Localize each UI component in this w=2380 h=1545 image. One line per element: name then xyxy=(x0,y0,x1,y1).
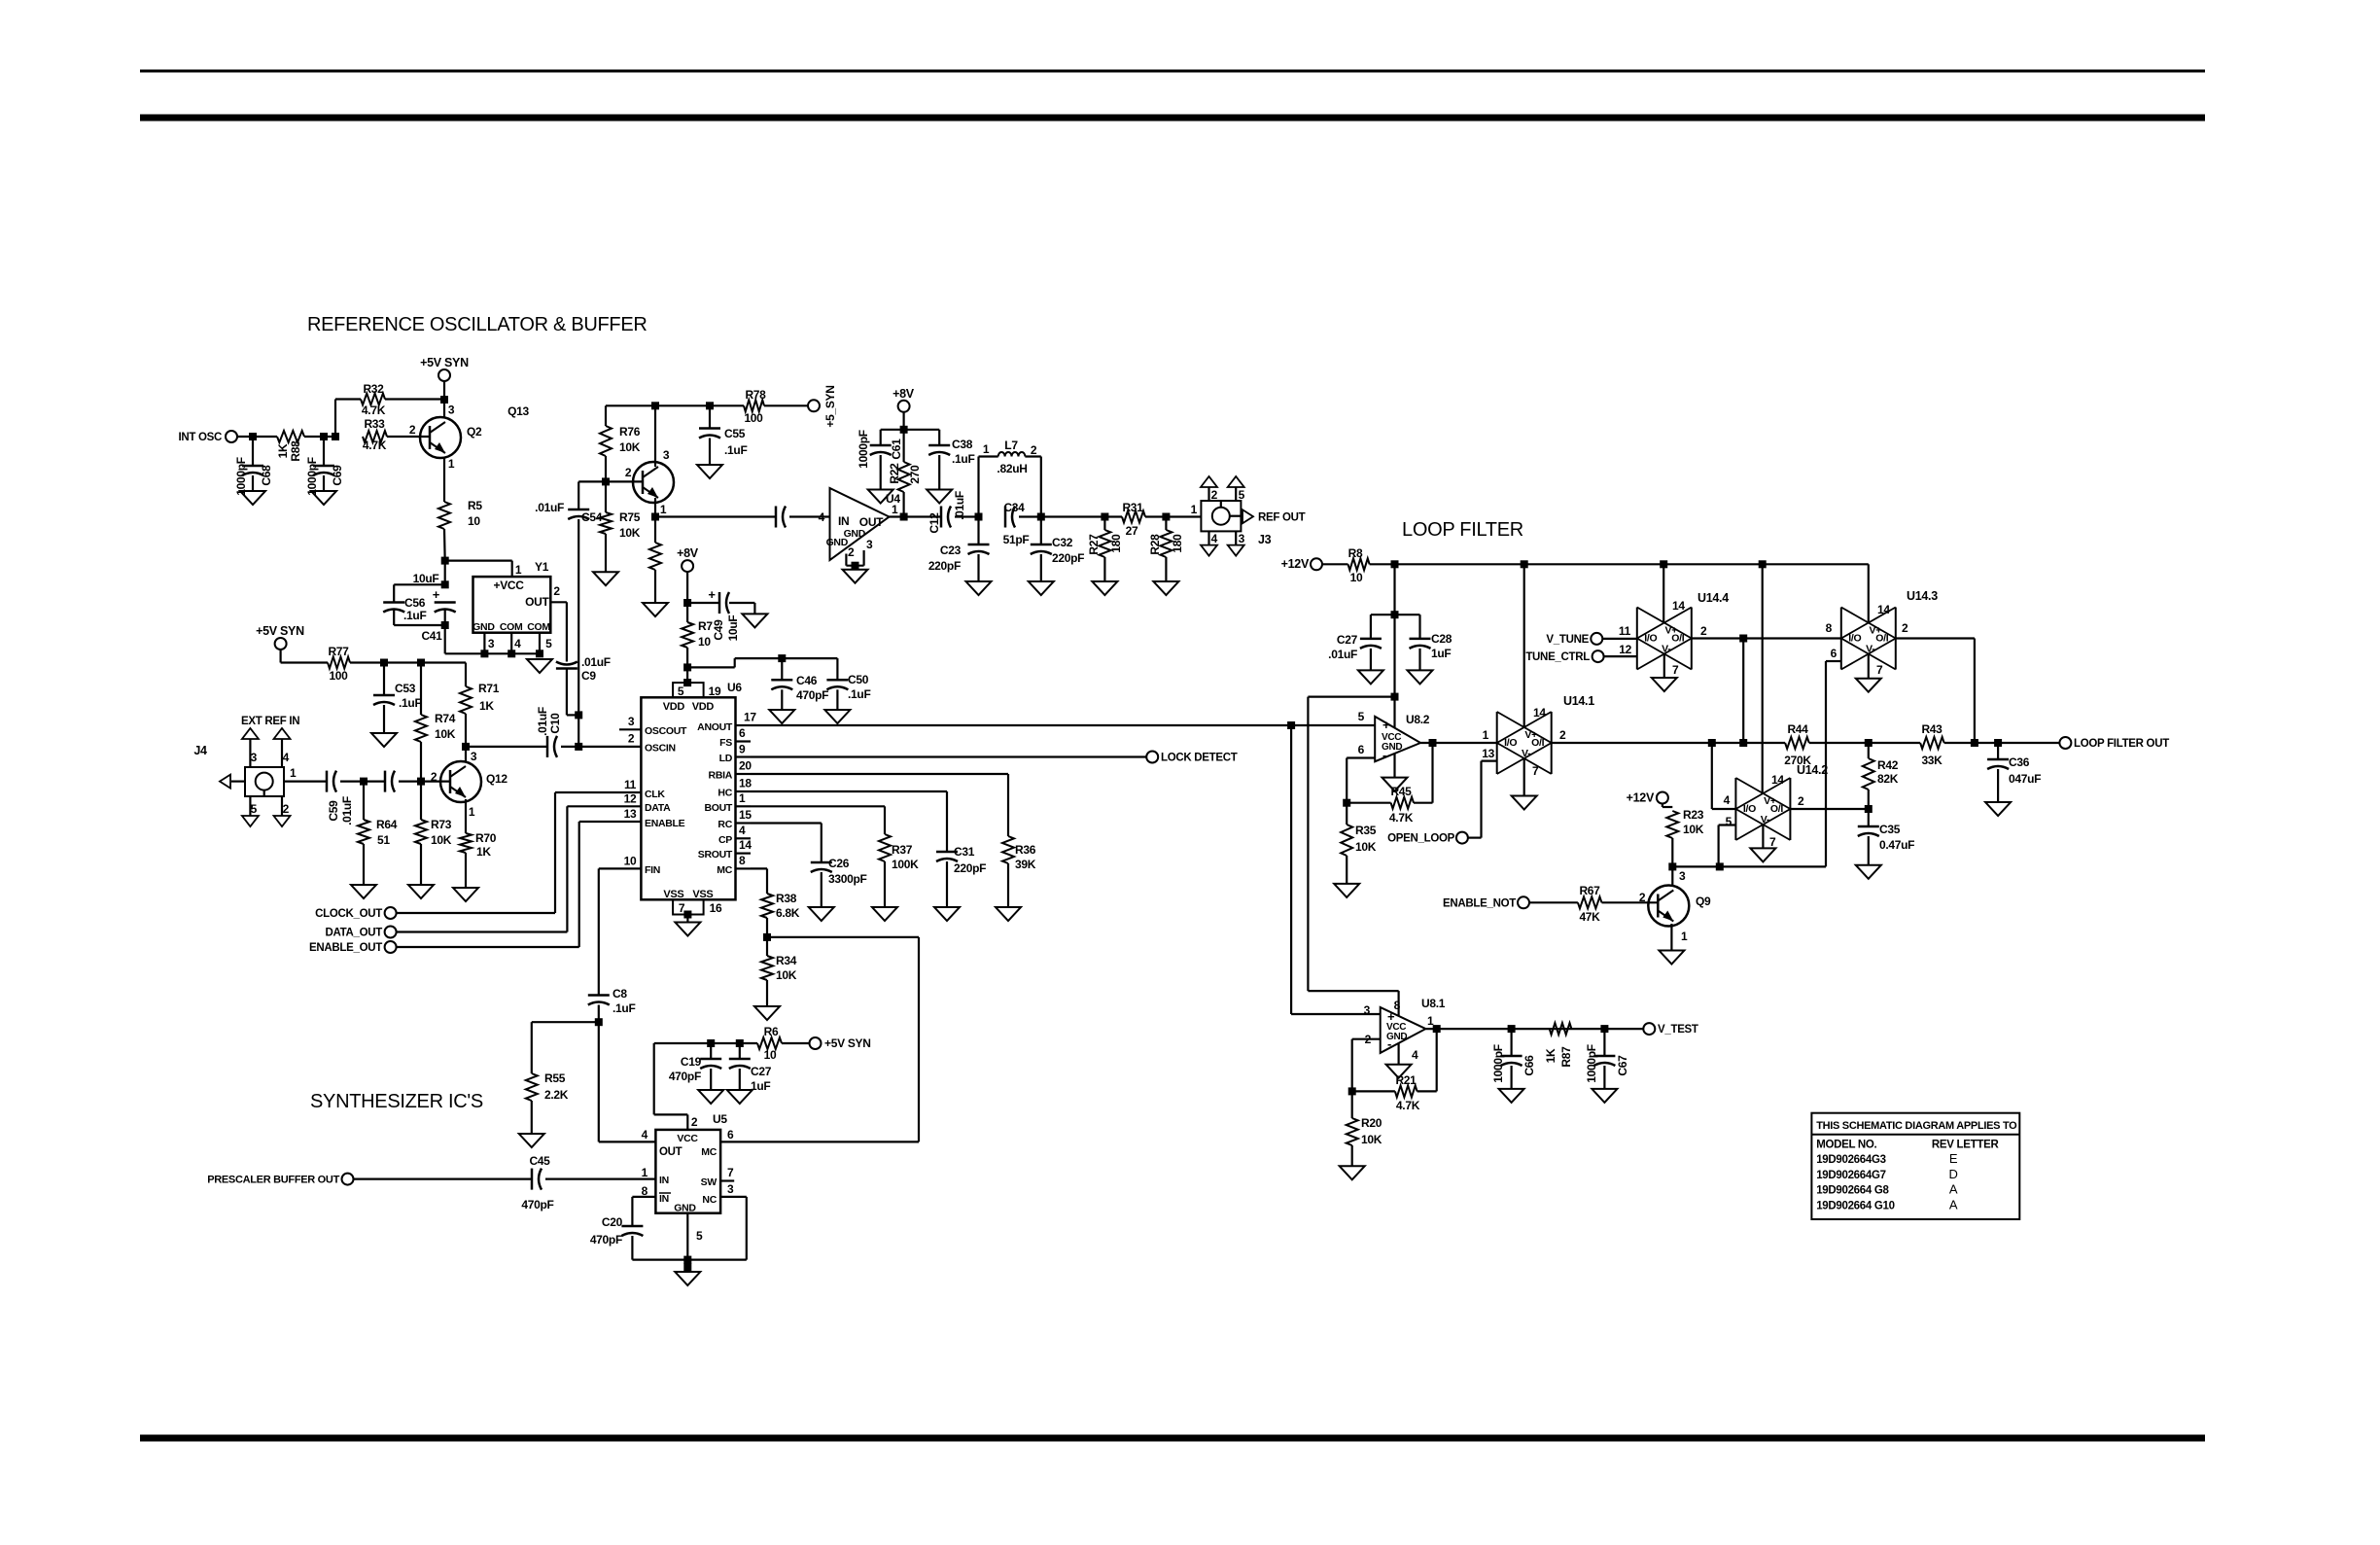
U6 bottom VSS notch with pins 7 and 16 xyxy=(673,899,722,922)
wire U6 FIN to C8 and U5 OUT xyxy=(599,868,656,1141)
svg-text:R33: R33 xyxy=(364,417,385,431)
svg-text:C55: C55 xyxy=(724,427,746,440)
svg-text:180: 180 xyxy=(1109,534,1123,553)
svg-text:+12V: +12V xyxy=(1281,557,1310,571)
svg-text:3: 3 xyxy=(1679,869,1686,883)
junction R7 bottom / VDD node xyxy=(683,663,691,686)
wire Q9 emitter to ground xyxy=(1670,924,1672,951)
ground below C38 xyxy=(927,490,952,504)
svg-text:R6: R6 xyxy=(764,1025,779,1038)
svg-text:VDD: VDD xyxy=(663,701,685,713)
analog switch U14.3 xyxy=(1831,589,1939,670)
svg-text:-: - xyxy=(1382,748,1386,762)
svg-text:R34: R34 xyxy=(776,954,797,967)
capacitor C9 .01uF xyxy=(556,655,611,715)
svg-text:R31: R31 xyxy=(1122,501,1143,514)
capacitor C28 1uF xyxy=(1410,614,1452,670)
wire U14.2 pin 2 out to R42 node xyxy=(1790,808,1868,810)
U14.3 pin 7 ground wire xyxy=(1869,654,1883,679)
svg-text:O/I: O/I xyxy=(1671,633,1684,645)
svg-text:C34: C34 xyxy=(1003,501,1025,514)
svg-text:3: 3 xyxy=(448,404,455,417)
ground below R55 xyxy=(519,1134,544,1147)
svg-text:5: 5 xyxy=(1239,488,1245,502)
wire U5 pin 5 GND node xyxy=(683,1213,691,1272)
wire U4 OUT to C12 xyxy=(890,513,942,521)
svg-text:C31: C31 xyxy=(954,845,975,859)
capacitor C69 1000pF xyxy=(305,437,344,496)
svg-text:1000pF: 1000pF xyxy=(1491,1044,1505,1083)
svg-text:.82uH: .82uH xyxy=(997,462,1027,475)
analog switch U14.4 xyxy=(1619,591,1729,670)
svg-text:VSS: VSS xyxy=(692,889,713,900)
svg-text:5: 5 xyxy=(251,802,258,816)
ground below C53 xyxy=(371,733,397,747)
capacitor C41 10uF polarized xyxy=(413,572,456,653)
svg-text:VCC: VCC xyxy=(677,1133,698,1144)
svg-text:+: + xyxy=(433,587,440,602)
svg-text:.01uF: .01uF xyxy=(535,501,564,514)
svg-text:R74: R74 xyxy=(435,712,456,725)
op-amp U8.1 xyxy=(1364,997,1446,1062)
svg-text:20: 20 xyxy=(739,759,752,773)
capacitor C45 470pF xyxy=(521,1154,553,1211)
svg-text:GND: GND xyxy=(472,621,495,633)
svg-text:13: 13 xyxy=(1482,747,1494,760)
U6 pin 20 RBIA stub xyxy=(736,759,752,775)
svg-text:+VCC: +VCC xyxy=(494,579,525,592)
svg-text:MODEL NO.: MODEL NO. xyxy=(1816,1139,1876,1150)
svg-text:19: 19 xyxy=(709,685,721,698)
svg-text:3: 3 xyxy=(628,715,635,728)
resistor R38 6.8K xyxy=(761,892,800,937)
label REF OUT xyxy=(1258,512,1306,524)
ground below C27 (U5) xyxy=(727,1090,752,1104)
ground below U14.1 xyxy=(1512,796,1537,810)
svg-text:.1uF: .1uF xyxy=(612,1001,635,1015)
resistor R64 51 xyxy=(358,782,398,885)
terminal LOCK DETECT xyxy=(1146,752,1238,764)
junction C32 node xyxy=(1019,513,1104,521)
terminal +5_SYN xyxy=(808,385,837,427)
wire BOUT to R37 xyxy=(751,806,885,834)
svg-text:19D902664G7: 19D902664G7 xyxy=(1816,1170,1886,1181)
svg-text:Q9: Q9 xyxy=(1696,895,1711,908)
capacitor C27 1uF (U5 supply) xyxy=(729,1043,772,1093)
svg-text:5: 5 xyxy=(1358,710,1365,723)
svg-text:5: 5 xyxy=(678,685,684,698)
svg-text:.01uF: .01uF xyxy=(581,655,611,669)
wire U14.3 out down to main line xyxy=(1896,639,1975,744)
ground below R73 xyxy=(408,885,434,898)
svg-text:C59: C59 xyxy=(327,800,340,822)
svg-text:+8V: +8V xyxy=(892,387,915,401)
wire PRESCALER BUFFER OUT to U5 IN via C45 xyxy=(354,1177,656,1179)
ground below C68 xyxy=(240,491,265,505)
junction Q9 collector node xyxy=(1668,862,1724,886)
svg-text:GND: GND xyxy=(826,537,849,548)
svg-text:C27: C27 xyxy=(1337,633,1358,647)
svg-text:V_TUNE: V_TUNE xyxy=(1546,634,1589,646)
svg-text:R73: R73 xyxy=(431,818,452,831)
resistor Q13 emitter (unlabeled) xyxy=(649,543,661,603)
terminal PRESCALER BUFFER OUT xyxy=(207,1174,353,1186)
svg-text:7: 7 xyxy=(1769,835,1776,849)
ground below C55 xyxy=(697,465,722,478)
svg-text:4: 4 xyxy=(1412,1048,1418,1062)
capacitor C12 .01uF xyxy=(927,491,979,533)
ground below R37 xyxy=(872,907,897,921)
svg-text:7: 7 xyxy=(727,1166,734,1179)
svg-text:R76: R76 xyxy=(619,425,641,439)
wire Q2 emitter to R5 xyxy=(443,457,445,502)
svg-text:6.8K: 6.8K xyxy=(776,906,800,920)
svg-text:OSCIN: OSCIN xyxy=(645,743,676,755)
capacitor C54 .01uF xyxy=(535,501,603,524)
junction R45 R35 node xyxy=(1343,799,1350,807)
wire main loop line U14.1 out to R44 xyxy=(1552,739,1785,747)
svg-text:R8: R8 xyxy=(1348,546,1363,560)
svg-text:R78: R78 xyxy=(745,388,766,402)
svg-text:C38: C38 xyxy=(952,438,973,451)
svg-text:16: 16 xyxy=(710,901,722,915)
svg-text:5: 5 xyxy=(696,1229,703,1243)
resistor R71 1K xyxy=(460,663,500,747)
svg-text:100: 100 xyxy=(329,669,348,683)
resistor R23 10K xyxy=(1666,808,1703,866)
IC U5 body xyxy=(642,1112,734,1243)
svg-text:0.47uF: 0.47uF xyxy=(1879,838,1914,852)
svg-text:470pF: 470pF xyxy=(521,1198,553,1211)
svg-text:1K: 1K xyxy=(476,845,491,859)
resistor R36 39K xyxy=(1002,836,1036,907)
ground below C67 xyxy=(1592,1089,1617,1103)
transistor Q9 xyxy=(1639,869,1711,943)
svg-text:2: 2 xyxy=(628,732,635,746)
svg-text:EXT REF IN: EXT REF IN xyxy=(241,716,299,727)
svg-text:Y1: Y1 xyxy=(535,560,549,574)
svg-text:IN: IN xyxy=(659,1193,669,1205)
svg-text:2: 2 xyxy=(1700,624,1707,638)
svg-text:1: 1 xyxy=(1483,728,1489,742)
ground below U14.2 xyxy=(1750,848,1775,861)
junction C36 node xyxy=(1994,739,2002,747)
capacitor C10 .01uF xyxy=(536,707,562,757)
crystal oscillator Y1 xyxy=(472,560,560,633)
wire OPEN_LOOP to U14.1 pin 13 xyxy=(1468,761,1497,838)
svg-text:6: 6 xyxy=(1358,743,1365,756)
svg-text:R70: R70 xyxy=(475,831,497,845)
svg-text:4.7K: 4.7K xyxy=(1396,1099,1420,1112)
svg-text:14: 14 xyxy=(739,838,752,852)
svg-text:1: 1 xyxy=(290,766,297,780)
svg-text:82K: 82K xyxy=(1877,772,1899,786)
ground below C36 xyxy=(1985,802,2011,816)
svg-text:14: 14 xyxy=(1771,773,1784,787)
IC U6 top VDD notch with pins 5 and 19 xyxy=(673,681,742,698)
wire +5 rail (R76 top to R78) xyxy=(606,402,714,409)
capacitor C68 1000pF xyxy=(234,437,273,496)
svg-text:4.7K: 4.7K xyxy=(363,439,387,452)
U6 pin 14 SROUT stub xyxy=(736,838,752,854)
svg-text:1000pF: 1000pF xyxy=(305,457,319,496)
wire U5 pin 8 INbar to C20 xyxy=(632,1197,655,1226)
ground below Q9 xyxy=(1659,951,1684,965)
ground below C23 xyxy=(966,581,992,595)
svg-text:470pF: 470pF xyxy=(796,688,828,702)
resistor R75 10K xyxy=(600,481,641,572)
capacitor C61 1000pF xyxy=(857,430,903,490)
wire U8.1 pin 2 to R21/R20 node xyxy=(1352,1039,1381,1092)
svg-text:R43: R43 xyxy=(1921,722,1942,736)
svg-text:A: A xyxy=(1949,1197,1958,1211)
svg-text:1K: 1K xyxy=(276,443,290,458)
svg-text:VDD: VDD xyxy=(692,701,715,713)
wire LD to LOCK DETECT xyxy=(751,755,1146,757)
junction +8V node xyxy=(683,599,691,607)
svg-text:LOOP FILTER OUT: LOOP FILTER OUT xyxy=(2074,738,2169,750)
junction C53 tap xyxy=(380,659,388,667)
U6 pin 10 FIN stub xyxy=(619,855,641,869)
svg-text:+: + xyxy=(1382,718,1390,732)
svg-text:2: 2 xyxy=(409,423,416,437)
svg-text:4: 4 xyxy=(642,1128,648,1141)
wire Y1 OUT through C9 xyxy=(550,602,567,661)
svg-text:51pF: 51pF xyxy=(1003,533,1030,546)
svg-text:C49: C49 xyxy=(712,619,725,641)
svg-text:R71: R71 xyxy=(478,682,500,695)
svg-text:FS: FS xyxy=(719,737,732,749)
ground below C69 xyxy=(311,491,336,505)
svg-text:1uF: 1uF xyxy=(751,1079,770,1093)
svg-text:2: 2 xyxy=(1902,621,1908,635)
capacitor C34 51pF xyxy=(1003,501,1030,546)
svg-text:C26: C26 xyxy=(828,857,850,870)
wire RBIA to R36 xyxy=(751,774,1008,836)
resistor R5 10 xyxy=(438,499,482,561)
svg-text:.01uF: .01uF xyxy=(536,707,549,736)
coupling capacitor (unlabeled) at U4 input xyxy=(776,507,786,528)
capacitor C38 .1uF xyxy=(928,430,974,490)
top thin rule xyxy=(140,70,2205,73)
U6 pin 13 ENABLE stub xyxy=(619,807,641,822)
svg-text:10K: 10K xyxy=(619,526,641,540)
svg-text:R7: R7 xyxy=(698,619,713,633)
svg-text:.1uF: .1uF xyxy=(403,609,426,622)
junction R64 tap xyxy=(360,778,367,786)
junction U14.3 output node xyxy=(1971,739,1978,747)
svg-text:C45: C45 xyxy=(529,1154,550,1168)
svg-text:R75: R75 xyxy=(619,510,641,524)
svg-text:100K: 100K xyxy=(892,858,919,871)
wire MC node to U5 pin 6 xyxy=(720,937,919,1142)
wire RC to C26 xyxy=(751,824,822,863)
resistor R74 10K xyxy=(415,663,456,782)
svg-text:OPEN_LOOP: OPEN_LOOP xyxy=(1387,833,1455,845)
svg-text:1: 1 xyxy=(642,1166,648,1179)
svg-text:C61: C61 xyxy=(890,439,903,460)
svg-text:+8V: +8V xyxy=(677,546,699,560)
terminal +12V (R23 branch) xyxy=(1627,791,1673,808)
svg-text:I/O: I/O xyxy=(1644,633,1657,645)
svg-text:.1uF: .1uF xyxy=(848,687,870,701)
svg-text:Q13: Q13 xyxy=(507,404,529,418)
junction Q12 collector node xyxy=(462,743,470,762)
ground below C26 xyxy=(809,907,834,921)
svg-text:I/O: I/O xyxy=(1743,803,1756,815)
svg-text:.01uF: .01uF xyxy=(340,796,354,825)
capacitor C32 220pF xyxy=(1031,517,1084,582)
svg-text:C53: C53 xyxy=(395,682,416,695)
svg-text:COM: COM xyxy=(500,621,523,633)
U8.2 GND pin to ground xyxy=(1393,754,1395,778)
svg-text:470pF: 470pF xyxy=(669,1070,701,1083)
U14.2 pin 14 supply wire xyxy=(1762,564,1764,793)
resistor R31 27 xyxy=(1104,501,1201,538)
wire U5 pin 2 VCC to R6 rail xyxy=(654,1039,757,1130)
svg-text:U14.4: U14.4 xyxy=(1697,591,1729,605)
svg-text:PRESCALER BUFFER OUT: PRESCALER BUFFER OUT xyxy=(207,1175,339,1186)
U14.4 pin 7 ground wire xyxy=(1664,654,1679,679)
bottom thick rule xyxy=(140,1435,2205,1442)
svg-text:U8.2: U8.2 xyxy=(1406,713,1430,726)
connector J3 REF OUT xyxy=(1191,476,1272,556)
svg-text:1uF: 1uF xyxy=(1431,647,1451,660)
wire ANOUT to U8.2 pin 5 xyxy=(751,721,1375,729)
ground below R28 xyxy=(1153,581,1178,595)
svg-text:8: 8 xyxy=(739,854,746,867)
svg-text:U14.3: U14.3 xyxy=(1907,589,1938,603)
capacitor C55 .1uF xyxy=(699,405,747,465)
junction R42 C35 node xyxy=(1865,805,1872,826)
svg-text:6: 6 xyxy=(1831,647,1837,660)
junction Q13 base xyxy=(602,477,643,485)
U14.2 pin 7 ground wire xyxy=(1763,825,1776,849)
svg-text:R27: R27 xyxy=(1087,534,1101,555)
svg-text:3: 3 xyxy=(1239,532,1245,545)
terminal V_TUNE xyxy=(1546,633,1602,646)
junction R55 tap xyxy=(595,1018,603,1026)
svg-text:10: 10 xyxy=(764,1048,777,1062)
svg-text:.1uF: .1uF xyxy=(724,443,747,457)
ground below R36 xyxy=(996,907,1021,921)
resistor R28 180 xyxy=(1148,517,1184,582)
terminal TUNE_CTRL xyxy=(1525,650,1603,663)
svg-text:3: 3 xyxy=(488,637,495,650)
ground below R75 xyxy=(593,572,618,585)
svg-text:4: 4 xyxy=(1724,793,1731,807)
svg-text:+5V SYN: +5V SYN xyxy=(420,356,469,369)
capacitor C66 1000pF xyxy=(1491,1029,1536,1089)
U6 pin 15 RC stub xyxy=(736,808,752,824)
wire U14.3 pin 6 control to Q9 collector node xyxy=(1672,661,1841,866)
ground below R34 xyxy=(754,1006,780,1020)
svg-text:C8: C8 xyxy=(612,987,627,1001)
svg-text:47K: 47K xyxy=(1579,910,1600,924)
capacitor C46 470pF xyxy=(771,658,828,710)
svg-text:17: 17 xyxy=(744,711,756,724)
terminal +8V (R7 branch) xyxy=(677,546,699,603)
top thick rule xyxy=(140,115,2205,122)
svg-text:2: 2 xyxy=(1211,488,1218,502)
svg-text:DATA_OUT: DATA_OUT xyxy=(325,928,382,939)
svg-text:7: 7 xyxy=(1672,663,1679,677)
svg-text:J3: J3 xyxy=(1258,533,1272,546)
svg-text:1000pF: 1000pF xyxy=(1585,1044,1598,1083)
svg-text:Q2: Q2 xyxy=(467,425,482,439)
ground below C35 xyxy=(1856,865,1881,879)
ground below C32 xyxy=(1029,581,1054,595)
ground below R27 xyxy=(1092,581,1117,595)
svg-text:R22: R22 xyxy=(888,463,901,484)
junction R42 top node xyxy=(1865,739,1872,747)
U8.1 GND pin 4 to ground xyxy=(1397,1043,1399,1065)
svg-text:R55: R55 xyxy=(544,1071,566,1085)
svg-text:DATA: DATA xyxy=(645,802,671,814)
svg-text:10K: 10K xyxy=(435,727,456,741)
svg-text:OSCOUT: OSCOUT xyxy=(645,725,687,737)
resistor R7 10 xyxy=(682,603,713,667)
svg-text:047uF: 047uF xyxy=(2009,772,2041,786)
terminal +5V SYN (Q2 collector) xyxy=(420,356,469,400)
svg-text:-: - xyxy=(1387,1036,1391,1051)
label Q13 (floating designator) xyxy=(507,404,529,418)
ground below U8.2 xyxy=(1382,778,1408,791)
svg-text:3: 3 xyxy=(471,750,477,763)
transistor Q12 xyxy=(431,750,508,819)
svg-text:C41: C41 xyxy=(421,629,442,643)
resistor R27 180 xyxy=(1087,517,1123,582)
junction R20 node xyxy=(1348,1087,1356,1095)
wire U8.2 pin 6 to R45/R35 xyxy=(1347,758,1375,803)
terminal V_TEST xyxy=(1643,1023,1698,1036)
svg-text:11: 11 xyxy=(624,778,637,791)
svg-text:C35: C35 xyxy=(1879,823,1901,836)
capacitor C50 .1uF xyxy=(826,658,870,710)
wire CLOCK_OUT to U6 CLK xyxy=(397,792,619,913)
ground below C27 xyxy=(1358,670,1383,684)
resistor R22 270 xyxy=(888,430,922,517)
capacitor C23 220pF xyxy=(928,517,990,582)
svg-text:100: 100 xyxy=(744,411,763,425)
svg-text:RC: RC xyxy=(717,819,732,830)
wire Y1 ground bus with pins 3 4 5 xyxy=(445,633,552,658)
U6 pin 11 CLK stub xyxy=(619,778,641,792)
wire +12V rail with junctions xyxy=(1391,560,1869,568)
svg-text:LD: LD xyxy=(719,753,733,764)
op-amp U4 buffer xyxy=(819,488,901,560)
svg-text:220pF: 220pF xyxy=(1052,551,1084,565)
svg-text:R77: R77 xyxy=(328,645,349,658)
svg-text:C69: C69 xyxy=(331,465,344,486)
wire main line junction down to U14.2 pin 4 xyxy=(1712,743,1736,809)
svg-text:12: 12 xyxy=(1619,643,1631,656)
svg-text:220pF: 220pF xyxy=(954,861,986,875)
svg-text:FIN: FIN xyxy=(645,864,660,876)
resistor R77 100 xyxy=(281,645,466,683)
wire INT OSC to Q2 base with junctions xyxy=(238,433,431,440)
svg-text:C66: C66 xyxy=(1522,1055,1536,1076)
IC U6 body xyxy=(641,697,735,900)
junction R27 node xyxy=(1101,513,1108,521)
junction R74 tap xyxy=(417,659,425,667)
series capacitor at Q12 base (unlabeled) xyxy=(385,771,395,792)
svg-text:O/I: O/I xyxy=(1770,803,1783,815)
U6 pin 8 MC stub xyxy=(736,854,752,868)
transistor Q2 xyxy=(409,404,482,472)
section title: REFERENCE OSCILLATOR & BUFFER xyxy=(307,314,647,335)
wire HC to C31 xyxy=(751,791,947,852)
